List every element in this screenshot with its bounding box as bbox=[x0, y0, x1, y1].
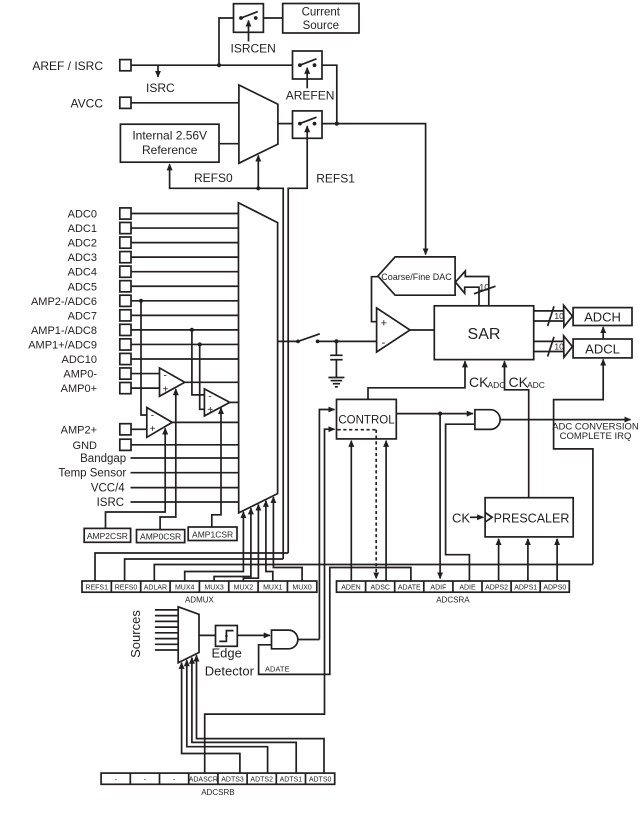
svg-text:+: + bbox=[150, 424, 156, 435]
wire ADASCR into control bbox=[205, 429, 335, 772]
wire Temp Sensor bbox=[131, 472, 239, 474]
svg-text:AREF / ISRC: AREF / ISRC bbox=[32, 59, 103, 73]
svg-text:CK: CK bbox=[509, 374, 529, 390]
wire mux output bbox=[278, 340, 298, 342]
pad AMP2+ bbox=[120, 424, 131, 435]
svg-text:Reference: Reference bbox=[142, 143, 198, 157]
svg-text:MUX2: MUX2 bbox=[234, 585, 254, 592]
wire MUX1 select bbox=[266, 501, 273, 581]
wire AMP2-/ADC6 bbox=[131, 300, 238, 302]
svg-text:ADCSRA: ADCSRA bbox=[436, 596, 470, 605]
op-amp AMP1 bbox=[204, 389, 229, 416]
svg-text:Temp Sensor: Temp Sensor bbox=[58, 468, 126, 480]
svg-text:CONTROL: CONTROL bbox=[338, 414, 395, 426]
svg-text:-: - bbox=[208, 391, 211, 402]
wire AMP0 minus bbox=[131, 373, 160, 375]
svg-text:ADC2: ADC2 bbox=[68, 238, 97, 250]
svg-text:ADIE: ADIE bbox=[459, 585, 476, 592]
big input mux bbox=[238, 203, 277, 513]
svg-text:GND: GND bbox=[73, 440, 98, 452]
wire MUX0 select bbox=[273, 497, 302, 581]
wire ADEN into control bbox=[350, 441, 352, 581]
edge detector box bbox=[216, 626, 238, 647]
comparator U-CMP bbox=[377, 308, 410, 352]
switch sample/hold bbox=[296, 334, 320, 344]
label Edge Detector bbox=[205, 646, 255, 679]
svg-text:PRESCALER: PRESCALER bbox=[494, 511, 570, 525]
register ADMUX bbox=[82, 581, 317, 592]
wire MUX4 select bbox=[185, 512, 244, 581]
wire mux to edge detector bbox=[199, 634, 216, 636]
wire CK to SAR from prescaler bbox=[505, 361, 529, 498]
wire ADC3 bbox=[131, 256, 238, 258]
op-amp AMP0 bbox=[160, 368, 185, 396]
svg-text:ADIF: ADIF bbox=[430, 585, 446, 592]
wire ADIE into AND gate bbox=[446, 424, 475, 581]
wire ISRCEN left drop to AREF line bbox=[219, 18, 234, 65]
svg-text:ADPS1: ADPS1 bbox=[514, 585, 537, 592]
wire ADTS3 select bbox=[182, 663, 240, 773]
label ADC CONVERSION COMPLETE IRQ bbox=[552, 422, 639, 443]
svg-text:ADTS2: ADTS2 bbox=[250, 777, 273, 784]
wire AMP2CSR enable bbox=[106, 428, 166, 528]
wire AMP0 output bbox=[185, 381, 239, 383]
SAR box bbox=[434, 306, 533, 360]
wire VCC/4 bbox=[131, 487, 239, 489]
wire AMP0CSR enable bbox=[160, 389, 176, 529]
wire comparator output to SAR bbox=[410, 329, 434, 331]
wire REFS0 net bbox=[170, 164, 284, 559]
svg-text:Bandgap: Bandgap bbox=[80, 453, 126, 465]
reference mux bbox=[239, 85, 278, 163]
node AREF junction bbox=[217, 63, 221, 67]
wire AMP1 plus input bbox=[200, 344, 205, 409]
svg-text:AMP2+: AMP2+ bbox=[61, 424, 97, 436]
wire trigger inputs bbox=[155, 610, 178, 650]
svg-text:Source: Source bbox=[303, 20, 339, 32]
wire AMP1CSR enable bbox=[212, 408, 221, 527]
svg-text:Edge: Edge bbox=[212, 646, 242, 661]
wire trigger AND output bbox=[298, 639, 320, 641]
wire ADC4 bbox=[131, 271, 238, 273]
svg-text:ADCSRB: ADCSRB bbox=[201, 788, 234, 797]
svg-text:AMP0-: AMP0- bbox=[63, 369, 97, 381]
internal 2.56V reference box bbox=[120, 124, 219, 162]
svg-text:REFS1: REFS1 bbox=[316, 171, 355, 185]
svg-text:ISRC: ISRC bbox=[146, 81, 175, 95]
node AREFEN/REFS1 junction bbox=[335, 122, 339, 126]
pad AVCC bbox=[120, 97, 131, 108]
trigger source mux bbox=[178, 607, 199, 663]
svg-text:ADATE: ADATE bbox=[265, 664, 289, 673]
switch ISRCEN bbox=[234, 4, 264, 42]
wire ADC0 bbox=[131, 213, 238, 215]
wire control to AND gate bbox=[396, 413, 473, 415]
svg-text:ADCH: ADCH bbox=[584, 310, 621, 325]
svg-text:CK: CK bbox=[452, 511, 470, 526]
wire AMP2 output bbox=[172, 421, 238, 423]
svg-text:SAR: SAR bbox=[468, 326, 501, 343]
wire ADIF flag down bbox=[439, 414, 441, 579]
svg-text:REFS0: REFS0 bbox=[115, 585, 138, 592]
register ADCSRA bbox=[337, 581, 570, 592]
wire MUX3 select bbox=[214, 508, 251, 581]
wire Bandgap bbox=[131, 457, 239, 459]
pad AMP0- bbox=[120, 368, 131, 379]
register AMP2CSR bbox=[84, 528, 130, 542]
wire ADATE bit to edge AND bbox=[259, 568, 411, 675]
svg-text:ADTS0: ADTS0 bbox=[309, 777, 332, 784]
wire AMP1 output bbox=[230, 401, 239, 403]
svg-text:ADLAR: ADLAR bbox=[144, 585, 167, 592]
pad GND bbox=[120, 439, 131, 450]
svg-text:ADPS2: ADPS2 bbox=[485, 585, 508, 592]
svg-text:ADTS1: ADTS1 bbox=[280, 777, 303, 784]
svg-text:ADPS0: ADPS0 bbox=[543, 585, 566, 592]
svg-text:+: + bbox=[163, 384, 169, 395]
svg-text:+: + bbox=[207, 405, 213, 416]
pad AMP2-/ADC6 bbox=[120, 295, 131, 306]
svg-text:Sources: Sources bbox=[128, 610, 143, 658]
svg-text:AVCC: AVCC bbox=[71, 96, 104, 110]
pad ADC5 bbox=[120, 281, 131, 292]
register ADCSRB bbox=[101, 773, 335, 784]
wire AVCC to reference mux bbox=[131, 102, 239, 104]
wire DAC to comparator plus bbox=[372, 277, 378, 322]
bus SAR to ADCL bbox=[534, 336, 573, 358]
node REFS0 junction bbox=[256, 186, 260, 190]
svg-text:ADC5: ADC5 bbox=[68, 281, 97, 293]
svg-text:ADSC: ADSC bbox=[370, 585, 389, 592]
svg-text:AMP2CSR: AMP2CSR bbox=[87, 531, 128, 541]
svg-text:AREFEN: AREFEN bbox=[286, 88, 335, 102]
wire MUX2 select bbox=[243, 505, 258, 582]
svg-text:REFS1: REFS1 bbox=[85, 585, 108, 592]
wire ISRCEN to current source bbox=[263, 17, 282, 19]
svg-text:VCC/4: VCC/4 bbox=[91, 483, 125, 495]
wire AMP1-/ADC8 bbox=[131, 329, 238, 331]
pad ADC7 bbox=[120, 310, 131, 321]
register AMP0CSR bbox=[137, 530, 185, 543]
pad AMP0+ bbox=[120, 383, 131, 394]
svg-text:ADC4: ADC4 bbox=[68, 267, 97, 279]
arrow CK into prescaler bbox=[470, 516, 483, 518]
label CK ADC right bbox=[509, 374, 545, 390]
svg-text:10: 10 bbox=[554, 342, 564, 352]
svg-text:ADCL: ADCL bbox=[585, 342, 620, 357]
register AMP1CSR bbox=[188, 527, 237, 541]
wire ADTS2 select bbox=[187, 660, 268, 773]
node ADC9 branch bbox=[198, 342, 202, 346]
svg-text:ADC0: ADC0 bbox=[68, 209, 97, 221]
node S/H cap junction bbox=[334, 339, 338, 343]
wire ADC2 bbox=[131, 242, 238, 244]
svg-text:AMP1CSR: AMP1CSR bbox=[192, 529, 233, 539]
svg-text:AMP0CSR: AMP0CSR bbox=[140, 532, 181, 542]
control box bbox=[337, 399, 397, 439]
wire ADSC into control bbox=[385, 441, 387, 581]
svg-text:-: - bbox=[382, 337, 386, 349]
wire control to ADSC dashed bbox=[375, 430, 377, 579]
svg-text:+: + bbox=[381, 317, 387, 329]
svg-text:ADC7: ADC7 bbox=[68, 310, 97, 322]
pad AMP1+/ADC9 bbox=[120, 339, 131, 350]
switch AREFEN bbox=[293, 51, 323, 88]
svg-text:10: 10 bbox=[479, 283, 489, 293]
svg-text:MUX4: MUX4 bbox=[175, 585, 195, 592]
pad ADC0 bbox=[120, 208, 131, 219]
pad ADC2 bbox=[120, 237, 131, 248]
arrow ADCL to ADCH bbox=[602, 327, 604, 339]
AND gate trigger bbox=[272, 630, 298, 649]
wire AMP1+/ADC9 bbox=[131, 343, 238, 345]
arrow ISRC tap bbox=[157, 65, 159, 77]
wire ADC1 bbox=[131, 227, 238, 229]
bus SAR to ADCH bbox=[534, 305, 573, 327]
svg-text:AMP1+/ADC9: AMP1+/ADC9 bbox=[28, 339, 97, 351]
wire AMP0 plus bbox=[131, 387, 160, 389]
svg-text:AMP0+: AMP0+ bbox=[61, 383, 97, 395]
wire AMP1 minus input bbox=[192, 330, 205, 395]
svg-text:10: 10 bbox=[554, 311, 564, 321]
node ADC8 branch bbox=[190, 328, 194, 332]
wire AMP2 minus input bbox=[141, 301, 147, 415]
arrow REFS0 select into reference mux bbox=[257, 155, 259, 188]
op-amp AMP2 bbox=[147, 408, 172, 438]
register ADCH bbox=[573, 308, 632, 326]
pad AMP1-/ADC8 bbox=[120, 324, 131, 335]
node ADIF branch bbox=[438, 412, 442, 416]
wire switch to comparator bbox=[318, 340, 377, 342]
wire ADC10 bbox=[131, 358, 238, 360]
wire AMP2 plus bbox=[131, 428, 147, 430]
svg-text:MUX1: MUX1 bbox=[263, 585, 283, 592]
pad AREF/ISRC bbox=[120, 60, 131, 71]
svg-text:MUX3: MUX3 bbox=[204, 585, 224, 592]
AND gate U-IRQ bbox=[475, 410, 500, 430]
svg-text:-: - bbox=[164, 371, 167, 382]
wire ADPS0 into prescaler bbox=[556, 539, 558, 581]
svg-text:Internal 2.56V: Internal 2.56V bbox=[132, 128, 207, 142]
svg-text:REFS0: REFS0 bbox=[194, 171, 233, 185]
svg-text:ISRCEN: ISRCEN bbox=[231, 42, 276, 56]
wire AREFEN output drop bbox=[322, 65, 337, 123]
wire GND bbox=[131, 444, 239, 446]
pad ADC4 bbox=[120, 266, 131, 277]
current source U-CS bbox=[283, 4, 359, 34]
wire REFS0 bit riser bbox=[125, 559, 284, 581]
svg-text:ADATE: ADATE bbox=[398, 585, 421, 592]
svg-text:ADC: ADC bbox=[527, 380, 545, 390]
node ADC6 branch bbox=[139, 299, 143, 303]
prescaler box bbox=[485, 498, 573, 537]
svg-text:AMP1-/ADC8: AMP1-/ADC8 bbox=[31, 325, 97, 337]
svg-text:ADEN: ADEN bbox=[341, 585, 360, 592]
pad ADC10 bbox=[120, 353, 131, 364]
DAC coarse/fine bbox=[378, 257, 455, 295]
svg-text:ISRC: ISRC bbox=[97, 497, 124, 509]
register ADCL bbox=[573, 339, 632, 358]
wire ADPS1 into prescaler bbox=[527, 539, 529, 581]
wire IRQ output bbox=[500, 419, 630, 421]
wire ADLAR to ADCL bbox=[554, 359, 604, 564]
pad ADC1 bbox=[120, 222, 131, 233]
wire ADTS0 select bbox=[197, 655, 325, 773]
svg-text:Detector: Detector bbox=[205, 664, 255, 679]
svg-text:ADTS3: ADTS3 bbox=[221, 777, 244, 784]
wire ISRC net bbox=[131, 501, 239, 503]
wire CK to SAR from control bbox=[368, 361, 465, 399]
svg-text:ADC10: ADC10 bbox=[62, 354, 97, 366]
arrow edge detector to AND bbox=[237, 634, 270, 636]
svg-text:-: - bbox=[151, 410, 154, 421]
wire ADPS2 into prescaler bbox=[498, 539, 500, 581]
wire reference mux output bbox=[278, 123, 293, 125]
svg-text:COMPLETE IRQ: COMPLETE IRQ bbox=[560, 431, 632, 442]
svg-text:Current: Current bbox=[302, 7, 341, 19]
wire ADTS1 select bbox=[192, 658, 296, 774]
svg-text:Coarse/Fine DAC: Coarse/Fine DAC bbox=[381, 272, 452, 282]
svg-text:CK: CK bbox=[469, 374, 489, 390]
svg-text:ADMUX: ADMUX bbox=[185, 596, 215, 605]
wire REFS1 switch output to DAC bbox=[322, 124, 426, 255]
svg-text:ADC3: ADC3 bbox=[68, 252, 97, 264]
wire REFS1 bit riser bbox=[95, 553, 288, 581]
wire trigger into control bbox=[319, 410, 334, 640]
svg-text:AMP2-/ADC6: AMP2-/ADC6 bbox=[31, 296, 97, 308]
label CK ADC left bbox=[469, 374, 505, 390]
ground bbox=[328, 378, 344, 387]
svg-text:ADC: ADC bbox=[488, 380, 506, 390]
switch REFS1 bbox=[293, 111, 323, 138]
wire reference box to mux bbox=[219, 143, 239, 145]
pad ADC3 bbox=[120, 252, 131, 263]
capacitor S/H bbox=[330, 341, 342, 377]
svg-text:MUX0: MUX0 bbox=[292, 585, 312, 592]
wire ADLAR bit riser bbox=[154, 565, 593, 582]
svg-text:ADASCR: ADASCR bbox=[189, 777, 218, 784]
wire ADC5 bbox=[131, 285, 238, 287]
svg-text:ADC1: ADC1 bbox=[68, 223, 97, 235]
wire ADC7 bbox=[131, 314, 238, 316]
wire REFS1 control drop bbox=[288, 138, 307, 553]
bus SAR to DAC bbox=[455, 271, 495, 306]
wire AREF to AREFEN bbox=[131, 64, 293, 66]
